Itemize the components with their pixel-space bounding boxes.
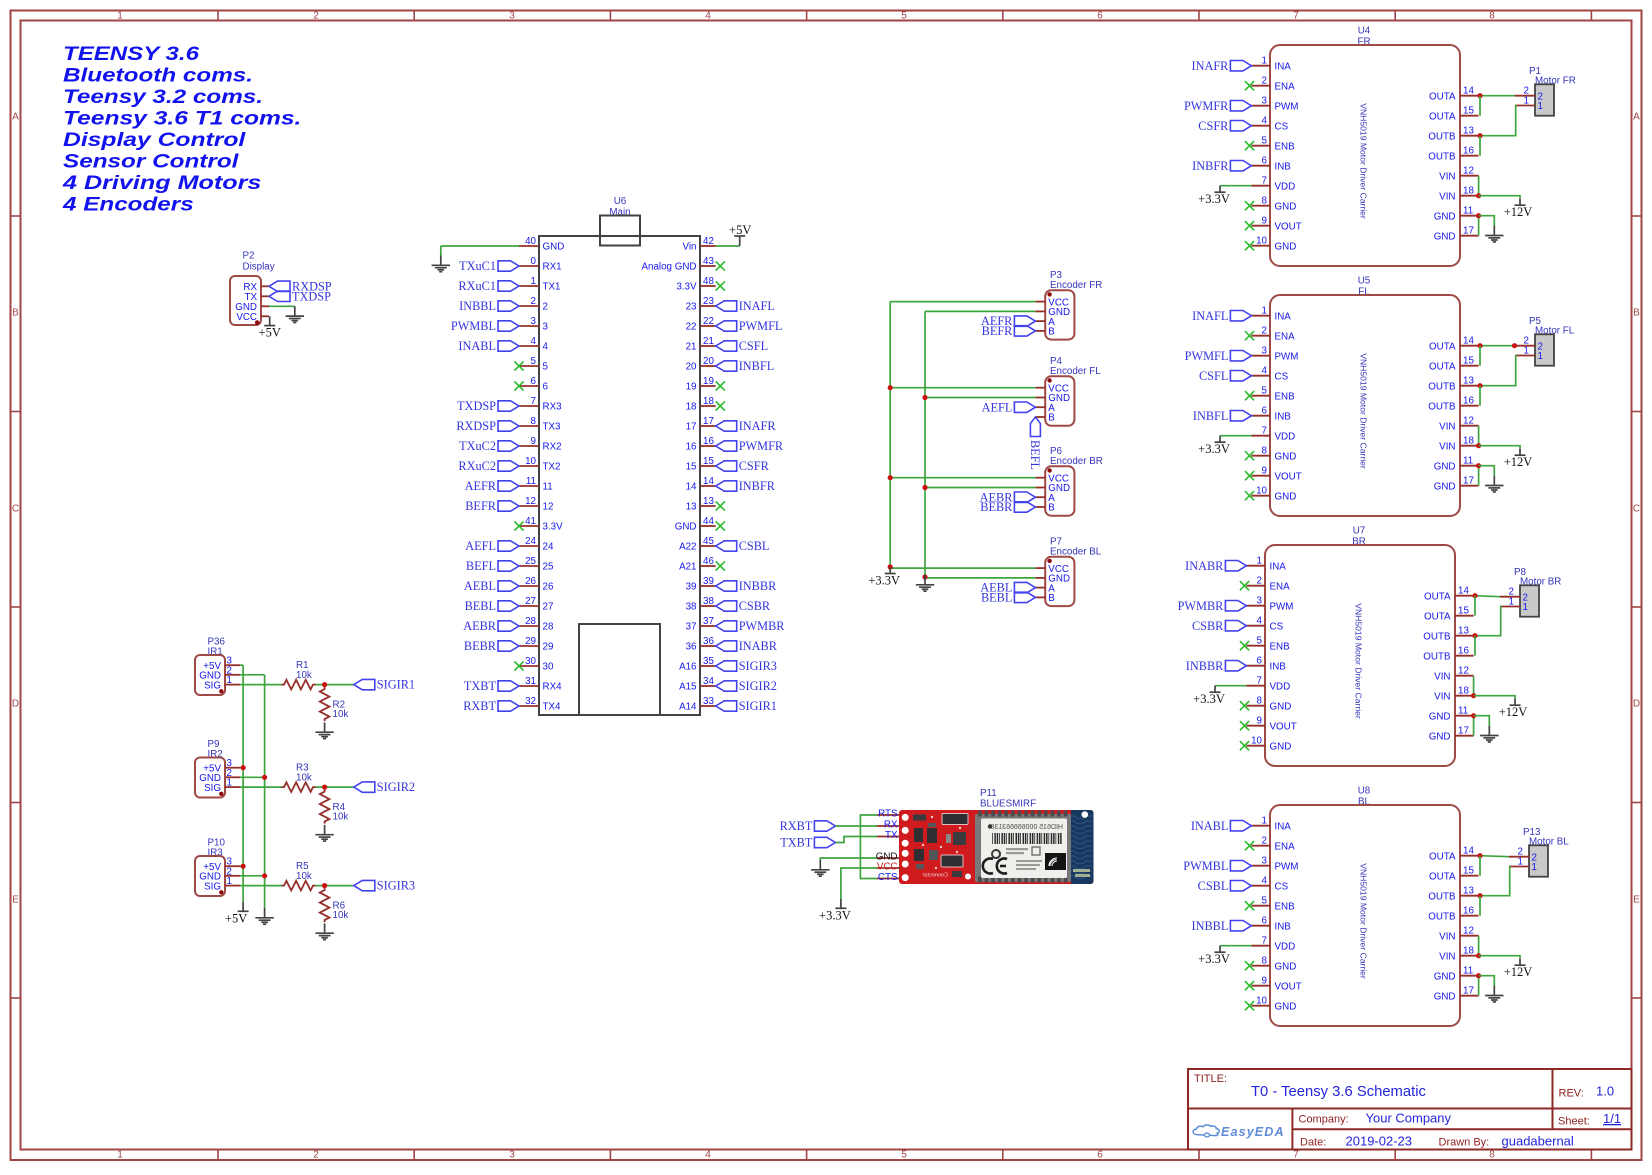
svg-text:11: 11	[1463, 456, 1473, 467]
svg-text:BEFR: BEFR	[982, 324, 1014, 338]
svg-text:36: 36	[686, 642, 697, 653]
no-connect U5 pin 9	[1245, 471, 1254, 480]
net flag INBBL	[1191, 919, 1251, 933]
svg-text:ENB: ENB	[1275, 901, 1296, 912]
svg-text:36: 36	[703, 636, 714, 647]
svg-text:VNH5019 Motor Driver Carrier: VNH5019 Motor Driver Carrier	[1354, 603, 1364, 719]
wire P11 RTS-CTS join	[860, 815, 877, 879]
net flag PWMFL	[1185, 349, 1252, 363]
wire U7 GND pins join	[1473, 716, 1475, 736]
svg-text:2: 2	[1257, 576, 1262, 587]
wire U8 OUTB to P13 pin 1	[1480, 867, 1510, 896]
wire OUTB pins join	[1479, 136, 1481, 156]
svg-text:20: 20	[686, 362, 697, 373]
net flag PWMBR	[716, 619, 786, 633]
svg-text:4: 4	[1262, 366, 1268, 377]
svg-text:11: 11	[1463, 966, 1473, 977]
IC U7 BR labels	[1352, 526, 1366, 548]
P4 pin GND	[1035, 393, 1070, 404]
junction	[1471, 693, 1476, 698]
P10 pin1 marker dot	[219, 890, 223, 894]
ground	[1485, 476, 1503, 492]
svg-text:AEBL: AEBL	[464, 579, 496, 593]
svg-text:10: 10	[1256, 486, 1267, 497]
svg-text:A15: A15	[679, 682, 697, 693]
no-connect U8 pin 5	[1245, 901, 1254, 910]
svg-text:OUTA: OUTA	[1429, 111, 1456, 122]
U4 pin 18 VIN	[1439, 186, 1478, 203]
svg-text:INA: INA	[1270, 561, 1287, 572]
U7 pin 2 ENA	[1246, 576, 1290, 593]
svg-text:VDD: VDD	[1275, 181, 1296, 192]
svg-text:VIN: VIN	[1439, 441, 1455, 452]
svg-text:RXuC2: RXuC2	[458, 459, 496, 473]
svg-text:26: 26	[543, 582, 554, 593]
P10 pin 3 +5V	[203, 857, 240, 873]
net flag INBFR	[716, 479, 776, 493]
svg-text:SIGIR2: SIGIR2	[739, 679, 777, 693]
U4 pin 2 ENA	[1251, 76, 1295, 93]
svg-text:GND: GND	[1434, 231, 1456, 242]
svg-text:15: 15	[703, 456, 714, 467]
net flag CSFL	[1199, 369, 1251, 383]
svg-text:GND: GND	[543, 242, 565, 253]
svg-text:ENA: ENA	[1270, 581, 1291, 592]
connector P9 body	[195, 758, 225, 798]
svg-text:6: 6	[1262, 916, 1268, 927]
junction	[888, 475, 893, 480]
U7 pin 16 OUTB	[1423, 646, 1473, 663]
U5 pin 8 GND	[1251, 446, 1296, 463]
wire U5 VDD to +3.3V	[1220, 435, 1251, 437]
wire OUTB pins join	[1474, 636, 1476, 656]
wire P10 SIG to divider	[240, 885, 282, 887]
wire P9 GND to bus	[240, 776, 265, 778]
svg-text:17: 17	[1463, 986, 1474, 997]
svg-text:RX4: RX4	[543, 682, 563, 693]
svg-text:GND: GND	[1275, 491, 1297, 502]
svg-text:6: 6	[531, 376, 537, 387]
svg-text:1: 1	[227, 675, 232, 686]
U6 pin 5 5	[519, 356, 549, 373]
resistor R5 labels	[296, 861, 312, 882]
svg-text:GND: GND	[1434, 971, 1456, 982]
U5 pin 15 OUTA	[1429, 356, 1479, 373]
U7 pin 11 GND	[1429, 706, 1474, 723]
net flag PWMFR	[1184, 99, 1251, 113]
svg-text:1: 1	[1524, 96, 1529, 107]
U5 pin 11 GND	[1434, 456, 1479, 473]
svg-text:Sensor Control: Sensor Control	[63, 150, 239, 172]
svg-text:32: 32	[525, 696, 536, 707]
no-connect U4 pin 8	[1245, 201, 1254, 210]
no-connect U4 pin 10	[1245, 241, 1254, 250]
P3 pin VCC	[1035, 297, 1069, 308]
svg-text:12: 12	[1463, 166, 1474, 177]
svg-text:VIN: VIN	[1434, 671, 1450, 682]
U6 pin 44 GND	[675, 516, 716, 533]
wire OUTB pins join	[1479, 386, 1481, 406]
svg-text:VIN: VIN	[1434, 691, 1450, 702]
svg-text:30: 30	[525, 656, 536, 667]
U5 pin 14 OUTA	[1429, 336, 1479, 353]
svg-text:5: 5	[1262, 386, 1268, 397]
wire U4 GND pins join	[1478, 216, 1480, 236]
svg-text:10: 10	[1251, 736, 1262, 747]
svg-text:1: 1	[117, 11, 123, 22]
wire divider node	[316, 885, 354, 887]
net flag INAFL	[1192, 309, 1251, 323]
svg-text:B: B	[1048, 503, 1055, 514]
net flag INAFR	[1191, 59, 1251, 73]
svg-text:12: 12	[1458, 666, 1469, 677]
U6 pin 6 6	[519, 376, 549, 393]
P9 pin 1 SIG	[204, 778, 240, 794]
resistor R4 labels	[333, 802, 349, 823]
U6 pin 1 TX1	[519, 276, 560, 293]
svg-text:7: 7	[1262, 176, 1267, 187]
junction	[262, 775, 267, 780]
ground	[432, 256, 450, 272]
svg-text:6: 6	[1262, 406, 1268, 417]
net flag CSBL	[716, 539, 770, 553]
svg-text:18: 18	[686, 402, 697, 413]
svg-text:PWMBL: PWMBL	[451, 319, 496, 333]
svg-text:41: 41	[525, 516, 536, 527]
svg-text:12: 12	[1463, 416, 1474, 427]
svg-text:GND: GND	[1434, 461, 1456, 472]
svg-text:VIN: VIN	[1439, 951, 1455, 962]
svg-text:10: 10	[1256, 236, 1267, 247]
resistor R1	[282, 680, 316, 690]
U6 pin 26 26	[519, 576, 554, 593]
svg-text:6: 6	[1257, 656, 1263, 667]
svg-text:C: C	[1633, 504, 1640, 515]
net flag CSFR	[716, 459, 770, 473]
svg-text:INB: INB	[1275, 411, 1292, 422]
svg-text:17: 17	[1458, 726, 1469, 737]
svg-text:2: 2	[313, 11, 319, 22]
net flag PWMBR	[1178, 599, 1247, 613]
no-connect U8 pin 8	[1245, 961, 1254, 970]
svg-text:23: 23	[703, 296, 714, 307]
wire U8 VIN to +12V	[1479, 956, 1520, 959]
svg-text:PWMFR: PWMFR	[739, 439, 784, 453]
junction	[322, 883, 327, 888]
svg-text:+5V: +5V	[225, 911, 247, 925]
svg-text:Display Control: Display Control	[63, 129, 246, 151]
svg-text:PWMBL: PWMBL	[1183, 859, 1228, 873]
svg-text:EasyEDA: EasyEDA	[1221, 1125, 1285, 1139]
connector P4 Encoder FL labels	[1050, 356, 1101, 377]
svg-text:U4: U4	[1358, 26, 1371, 37]
svg-text:4: 4	[1257, 616, 1263, 627]
svg-text:Vin: Vin	[683, 242, 697, 253]
connector P5 body	[1535, 334, 1554, 365]
svg-text:AEFL: AEFL	[465, 539, 496, 553]
junction	[1477, 383, 1482, 388]
net flag AEFR	[981, 314, 1035, 328]
svg-text:ENB: ENB	[1275, 391, 1296, 402]
svg-text:2: 2	[1262, 836, 1267, 847]
svg-text:INB: INB	[1275, 921, 1292, 932]
net flag CSFR	[1198, 119, 1251, 133]
svg-text:VOUT: VOUT	[1275, 221, 1302, 232]
svg-text:REV:: REV:	[1559, 1088, 1584, 1100]
svg-text:37: 37	[686, 622, 697, 633]
svg-text:3: 3	[1262, 856, 1268, 867]
junction	[262, 873, 267, 878]
wire P7 GND to ground bus	[925, 577, 1035, 579]
svg-text:ENA: ENA	[1275, 841, 1296, 852]
svg-text:P2: P2	[243, 251, 255, 262]
svg-text:25: 25	[543, 562, 554, 573]
P1 pin 2	[1515, 86, 1543, 103]
svg-text:INABL: INABL	[1191, 819, 1229, 833]
U4 pin 8 GND	[1251, 196, 1296, 213]
P5 pin 1	[1515, 346, 1543, 363]
svg-text:7: 7	[1293, 1150, 1299, 1161]
U4 pin 5 ENB	[1251, 136, 1295, 153]
svg-text:BEBR: BEBR	[464, 639, 497, 653]
U8 pin 4 CS	[1251, 876, 1288, 893]
svg-text:INA: INA	[1275, 821, 1292, 832]
U4 pin 1 INA	[1251, 56, 1291, 73]
wire OUTA pins join	[1479, 346, 1481, 366]
U7 pin 7 VDD	[1246, 676, 1290, 693]
IC U4 FR labels	[1357, 26, 1370, 48]
svg-text:GND: GND	[1270, 741, 1292, 752]
svg-text:INABR: INABR	[739, 639, 778, 653]
svg-text:17: 17	[1463, 476, 1474, 487]
U8 pin 7 VDD	[1251, 936, 1295, 953]
svg-text:14: 14	[1458, 586, 1469, 597]
U6 pin 20 20	[686, 356, 716, 373]
U7 pin 15 OUTA	[1424, 606, 1474, 623]
wire U5 VIN to +12V	[1479, 446, 1520, 449]
svg-text:1: 1	[1532, 862, 1537, 873]
net flag SIGIR1	[354, 678, 415, 692]
svg-text:OUTB: OUTB	[1428, 131, 1456, 142]
P9 pin1 marker dot	[219, 792, 223, 796]
svg-text:10k: 10k	[296, 871, 312, 882]
svg-text:4: 4	[543, 342, 549, 353]
net flag AEBL	[464, 579, 519, 593]
svg-text:RX1: RX1	[543, 262, 562, 273]
svg-text:A21: A21	[679, 562, 696, 573]
P4 pin1 marker dot	[1047, 378, 1051, 382]
P11 pin RX	[877, 819, 900, 830]
svg-text:INBBR: INBBR	[1186, 659, 1224, 673]
svg-text:BEFL: BEFL	[1028, 440, 1042, 470]
U4 pin 17 GND	[1434, 226, 1479, 243]
svg-text:45: 45	[703, 536, 714, 547]
U6 pin 33 A14	[679, 696, 716, 713]
net flag INABL	[1191, 819, 1252, 833]
svg-text:VCC: VCC	[236, 312, 257, 323]
svg-text:PWM: PWM	[1270, 601, 1294, 612]
svg-text:GND: GND	[1275, 201, 1297, 212]
svg-text:OUTA: OUTA	[1429, 851, 1456, 862]
P7 pin VCC	[1035, 564, 1069, 575]
no-connect U6 pin 13	[716, 501, 725, 510]
svg-text:15: 15	[1463, 866, 1474, 877]
svg-text:GND: GND	[1429, 731, 1451, 742]
svg-text:38: 38	[686, 602, 697, 613]
svg-text:17: 17	[703, 416, 714, 427]
P13 pin 2	[1509, 847, 1537, 864]
svg-text:U8: U8	[1358, 786, 1371, 797]
U5 pin 2 ENA	[1251, 326, 1295, 343]
U6 pin 10 TX2	[519, 456, 560, 473]
svg-text:PWM: PWM	[1275, 351, 1299, 362]
svg-text:PWMFR: PWMFR	[1184, 99, 1229, 113]
junction	[1477, 133, 1482, 138]
svg-text:15: 15	[1463, 356, 1474, 367]
svg-text:22: 22	[686, 322, 697, 333]
net flag TXuC2	[459, 439, 519, 453]
svg-text:U5: U5	[1358, 276, 1371, 287]
U4 pin 4 CS	[1251, 116, 1288, 133]
P10 pin 1 SIG	[204, 876, 240, 892]
net flag TXBT	[780, 836, 835, 850]
svg-text:19: 19	[703, 376, 714, 387]
svg-text:A: A	[1633, 112, 1640, 123]
svg-text:8: 8	[531, 416, 537, 427]
svg-text:1: 1	[1518, 857, 1523, 868]
no-connect U4 pin 9	[1245, 221, 1254, 230]
P2 pin RX	[243, 282, 269, 293]
net flag INBFR	[1192, 159, 1251, 173]
P7 pin1 marker dot	[1047, 559, 1051, 563]
P5 pin 2	[1515, 336, 1543, 353]
wire OUTA pins join	[1479, 96, 1481, 116]
svg-text:5: 5	[1262, 136, 1268, 147]
svg-text:10k: 10k	[296, 772, 312, 783]
U6 pin 18 18	[686, 396, 716, 413]
U6 pin 17 17	[686, 416, 716, 433]
ground	[315, 722, 333, 738]
svg-text:33: 33	[703, 696, 714, 707]
wire P10 GND to bus	[240, 875, 265, 877]
svg-text:2: 2	[1262, 76, 1267, 87]
wire U7 VIN pins join	[1473, 676, 1475, 696]
svg-text:1: 1	[1538, 101, 1543, 112]
ground	[255, 908, 273, 924]
U6 pin 43 Analog GND	[642, 256, 716, 273]
svg-text:TX1: TX1	[543, 282, 561, 293]
U6 pin 23 23	[686, 296, 716, 313]
svg-text:39: 39	[703, 576, 714, 587]
wire U4 VIN to +12V	[1479, 196, 1520, 199]
svg-text:10k: 10k	[333, 812, 349, 823]
P36 pin 2 GND	[199, 665, 240, 681]
svg-text:GND: GND	[1275, 451, 1297, 462]
U8 pin 11 GND	[1434, 966, 1479, 983]
svg-text:+12V: +12V	[1499, 705, 1528, 719]
svg-text:PWMBR: PWMBR	[739, 619, 786, 633]
IC U5 FL labels	[1358, 276, 1371, 298]
svg-text:13: 13	[686, 502, 697, 513]
U4 pin 10 GND	[1251, 236, 1296, 253]
U6 pin 21 21	[686, 336, 716, 353]
module P11 BLUESMIRF board	[899, 810, 1094, 884]
svg-text:7: 7	[1262, 936, 1267, 947]
svg-text:27: 27	[543, 602, 554, 613]
svg-text:11: 11	[1463, 206, 1473, 217]
P7 pin B	[1035, 593, 1055, 604]
no-connect U7 pin 8	[1240, 701, 1249, 710]
svg-text:BEBR: BEBR	[980, 500, 1013, 514]
svg-text:14: 14	[703, 476, 714, 487]
svg-text:15: 15	[1458, 606, 1469, 617]
svg-text:9: 9	[1262, 466, 1267, 477]
svg-text:21: 21	[703, 336, 714, 347]
svg-text:10k: 10k	[333, 910, 349, 921]
U7 pin 9 VOUT	[1246, 716, 1296, 733]
svg-text:CSBR: CSBR	[1192, 619, 1224, 633]
svg-text:25: 25	[525, 556, 536, 567]
U6 pin 39 39	[686, 576, 716, 593]
svg-text:8: 8	[1489, 1150, 1495, 1161]
svg-text:3.3V: 3.3V	[676, 282, 697, 293]
net flag RXuC1	[458, 279, 519, 293]
svg-text:INB: INB	[1270, 661, 1287, 672]
U8 pin 9 VOUT	[1251, 976, 1301, 993]
P6 pin A	[1035, 493, 1055, 504]
svg-text:10: 10	[525, 456, 536, 467]
net flag RXBT	[463, 699, 519, 713]
connector P2 Display labels	[243, 251, 275, 273]
svg-text:13: 13	[1463, 376, 1474, 387]
connector P1 Motor FR labels	[1529, 66, 1576, 87]
svg-text:22: 22	[703, 316, 714, 327]
svg-text:CSFL: CSFL	[739, 339, 768, 353]
net flag AEBR	[463, 619, 519, 633]
svg-text:ENB: ENB	[1275, 141, 1296, 152]
U8 pin 14 OUTA	[1429, 846, 1479, 863]
svg-text:VNH5019 Motor Driver Carrier: VNH5019 Motor Driver Carrier	[1359, 863, 1369, 979]
U6 pin 7 RX3	[519, 396, 562, 413]
svg-text:1/1: 1/1	[1603, 1111, 1621, 1126]
power +3.3V	[819, 899, 851, 922]
U8 pin 1 INA	[1251, 816, 1291, 833]
no-connect U6 pin 18	[716, 401, 725, 410]
resistor R4	[320, 790, 330, 824]
svg-text:CTS: CTS	[878, 872, 898, 883]
svg-text:SIG: SIG	[204, 783, 221, 794]
svg-text:13: 13	[1463, 886, 1474, 897]
svg-text:GND: GND	[1434, 481, 1456, 492]
svg-text:Display: Display	[243, 262, 275, 273]
svg-text:1: 1	[1523, 602, 1528, 613]
svg-text:INAFL: INAFL	[739, 299, 775, 313]
U7 pin 6 INB	[1246, 656, 1286, 673]
net flag CSBR	[1192, 619, 1246, 633]
svg-text:1: 1	[531, 276, 536, 287]
junction	[888, 564, 893, 569]
resistor R3 labels	[296, 763, 312, 784]
svg-text:Drawn By:: Drawn By:	[1439, 1137, 1490, 1149]
power +12V	[1504, 449, 1533, 470]
svg-text:4: 4	[705, 11, 711, 22]
power +3.3V	[1193, 686, 1225, 707]
P3 pin B	[1035, 327, 1055, 338]
svg-text:CSBR: CSBR	[739, 599, 771, 613]
U6 pin 45 A22	[679, 536, 716, 553]
svg-text:PWM: PWM	[1275, 101, 1299, 112]
wire divider node	[316, 684, 354, 686]
